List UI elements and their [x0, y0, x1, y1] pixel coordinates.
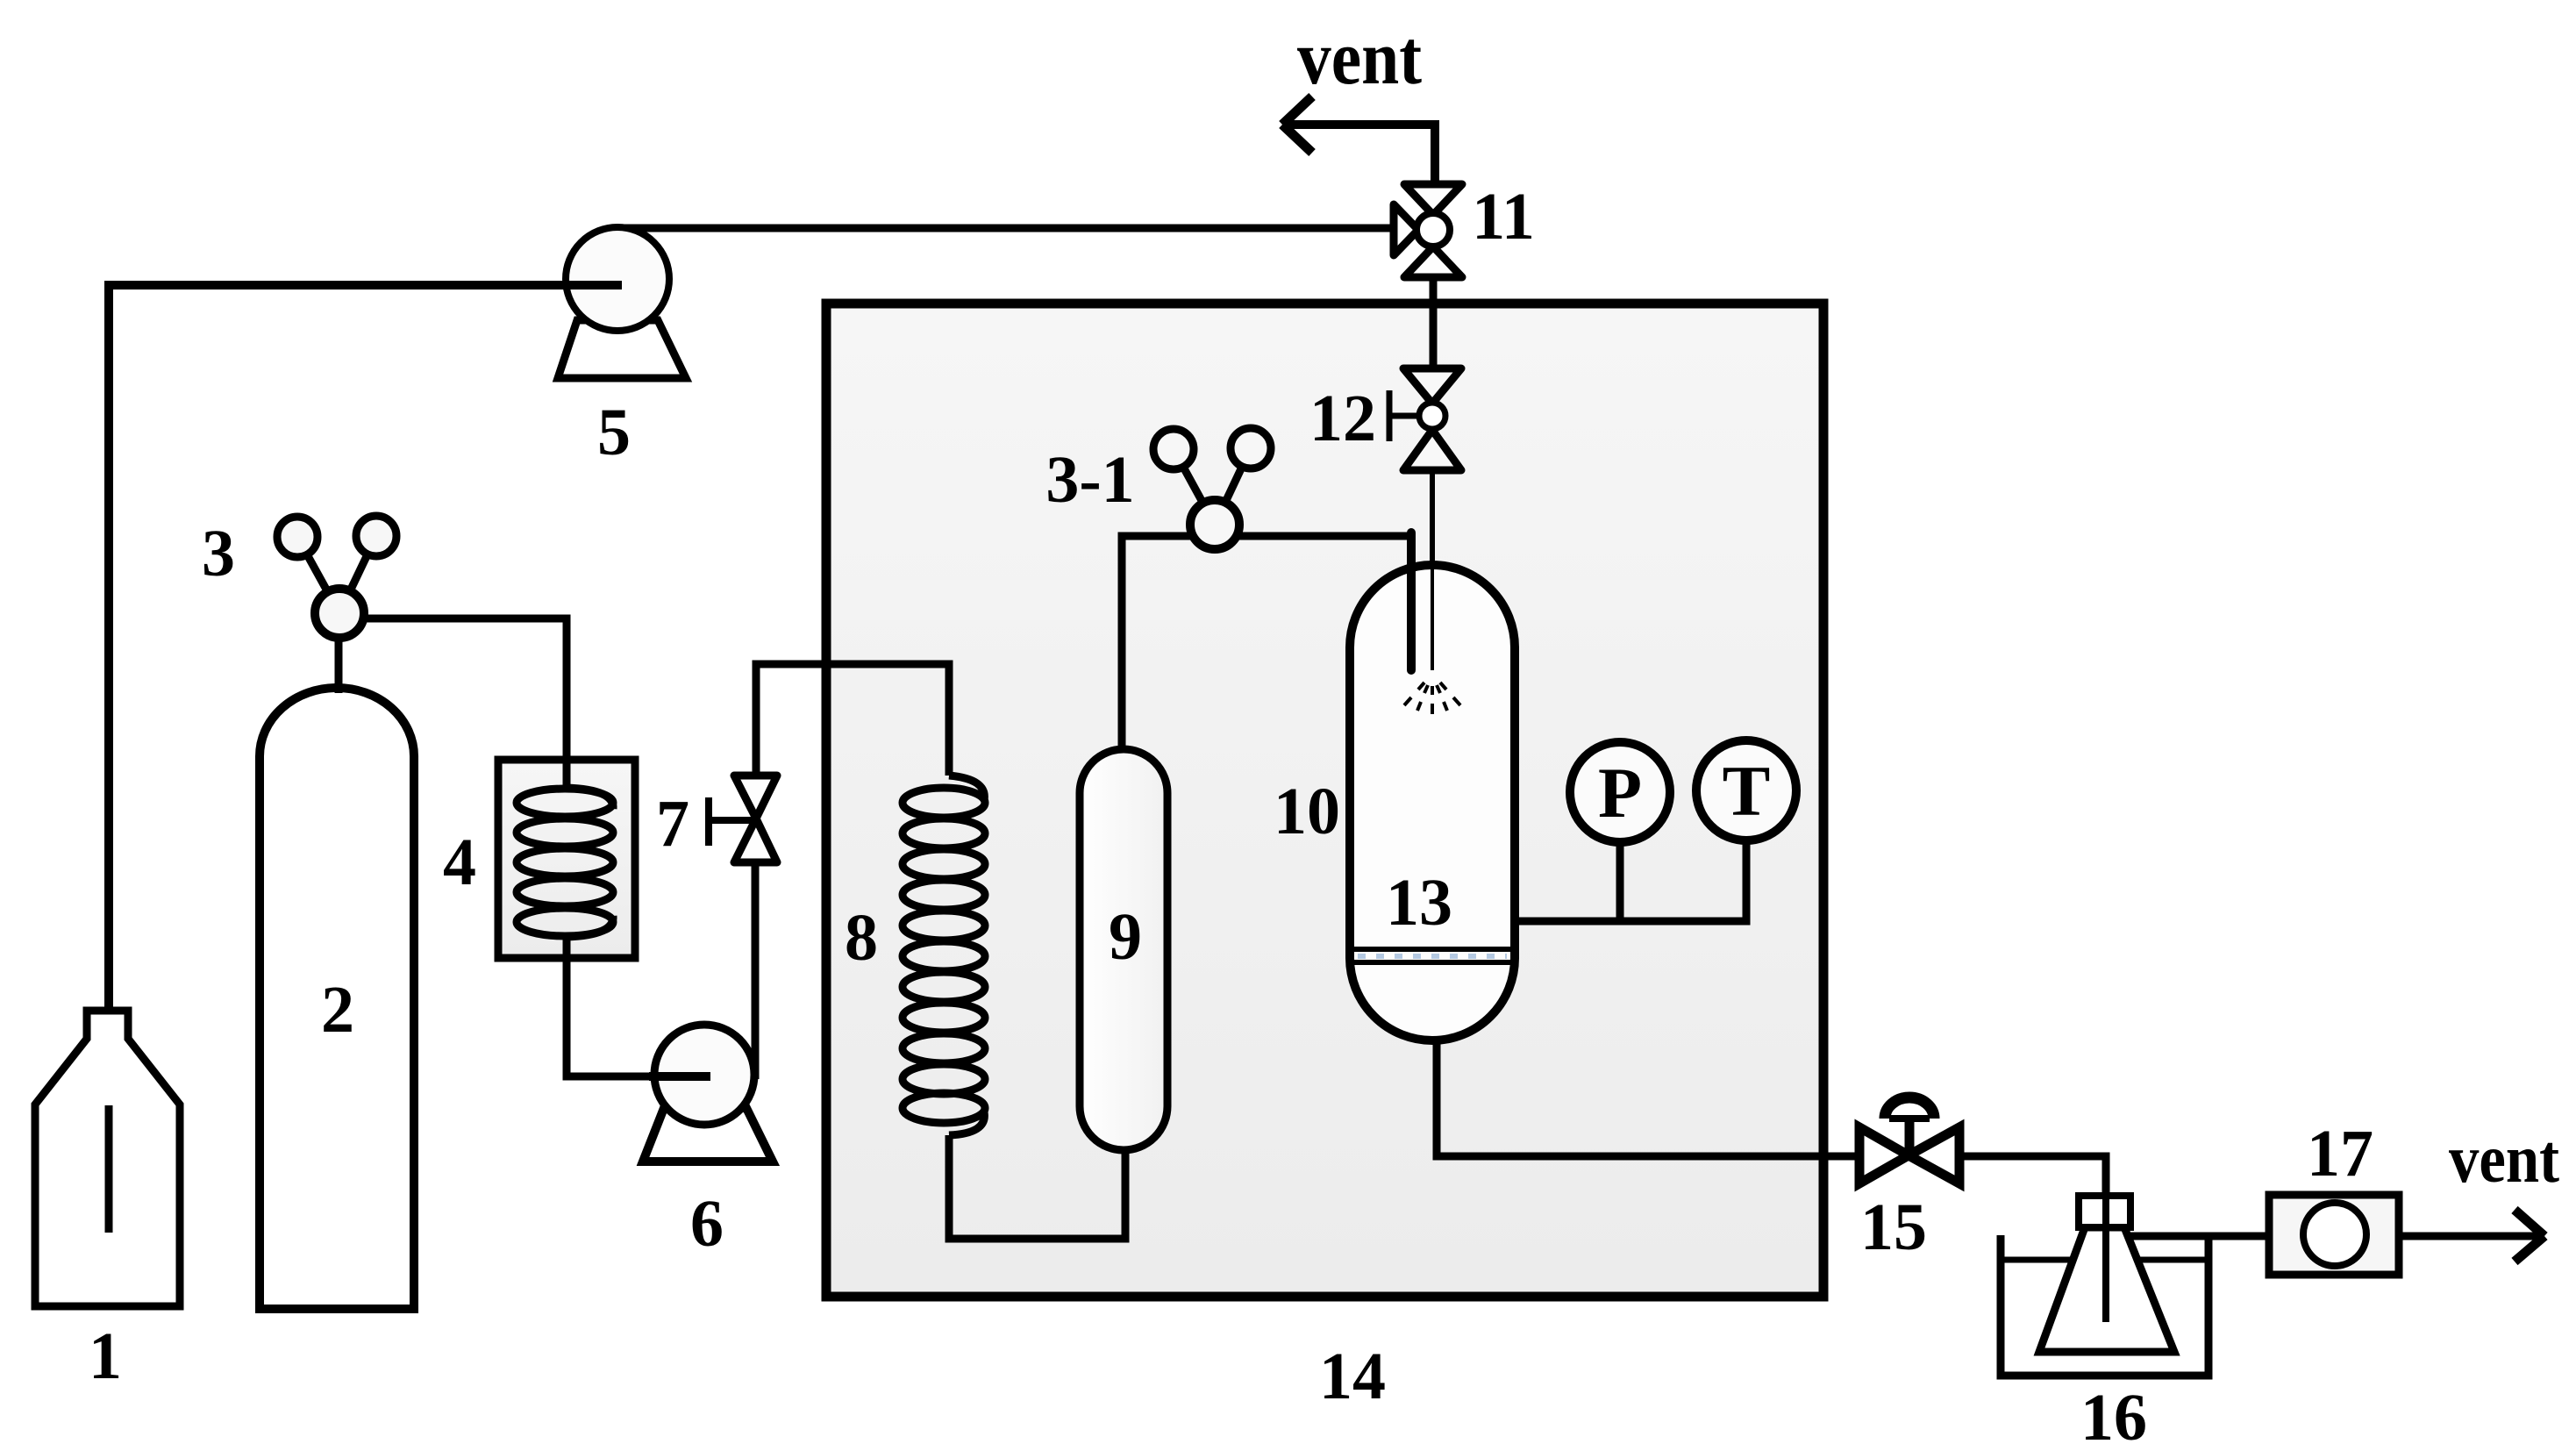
pump 5 inlet stub: [561, 281, 622, 290]
vessel 9 dryer: [1080, 749, 1167, 1150]
valve 12 stem: [1389, 413, 1420, 419]
bottle 1: [35, 1011, 180, 1306]
cylinder 2 neck nipple: [335, 640, 343, 693]
gas cylinder 2: [260, 688, 414, 1309]
svg-text:9: 9: [1109, 900, 1142, 974]
pump 6: [654, 1025, 754, 1125]
reactor spray feed line from valve12: [1431, 569, 1434, 670]
flask 16 collar: [2079, 1196, 2130, 1227]
svg-text:T: T: [1723, 751, 1771, 831]
wire vessel9 top to regulator3-1 to reactor feed pipe: [1122, 536, 1411, 749]
wire pump6 riser to valve7: [752, 861, 760, 1079]
flask 16 cone: [2039, 1227, 2174, 1352]
spray nozzle dashes: [1404, 683, 1460, 714]
wire bottle1 dip tube to pump5 inlet: [109, 285, 622, 1233]
vessel 10 reactor: [1350, 565, 1515, 1040]
svg-text:11: 11: [1472, 180, 1535, 254]
svg-text:14: 14: [1319, 1340, 1386, 1413]
svg-text:2: 2: [321, 973, 354, 1047]
regulator 3 right gauge: [356, 516, 396, 556]
wire cooler4 outlet to pump6: [567, 958, 710, 1076]
vent arrow top: [1284, 125, 1435, 186]
svg-text:6: 6: [690, 1187, 724, 1261]
valve 15: [1859, 1127, 1959, 1183]
dip tube inside bottle: [105, 1105, 113, 1233]
reactor feed pipe from 3-1: [1407, 533, 1416, 670]
wire flask to flow meter 17: [2129, 1233, 2271, 1240]
regulator 3 arms: [297, 537, 339, 613]
vent arrow right: [2399, 1233, 2542, 1240]
svg-text:P: P: [1598, 753, 1642, 833]
wire coil8 outlet to vessel9 bottom: [949, 1135, 1125, 1239]
svg-text:17: 17: [2307, 1117, 2373, 1190]
regulator 3 left gauge: [277, 517, 318, 557]
svg-text:13: 13: [1386, 866, 1452, 940]
regulator 3-1 arms: [1174, 449, 1215, 525]
wire regulator3 to cooler4: [362, 618, 567, 760]
wire gauges header: [1515, 839, 1746, 921]
wire valve12 to reactor dome: [1430, 468, 1435, 572]
flask dip tube: [2102, 1196, 2109, 1322]
wire valve11 to valve12: [1430, 275, 1438, 370]
svg-text:vent: vent: [1297, 16, 1422, 101]
svg-text:vent: vent: [2449, 1120, 2559, 1197]
regulator 3-1 left gauge: [1153, 429, 1194, 469]
valve 11 three-way: [1394, 184, 1462, 277]
valve 7: [734, 776, 777, 862]
svg-text:12: 12: [1309, 382, 1376, 455]
pump 5 base: [558, 320, 686, 378]
coil 8: [903, 776, 985, 1135]
oven box 14: [826, 304, 1823, 1297]
water bath 16: [2001, 1235, 2209, 1376]
svg-text:10: 10: [1274, 775, 1340, 848]
coil in cooler 4: [517, 760, 613, 958]
sieve plate 13 lines: [1352, 947, 1512, 952]
svg-text:5: 5: [597, 396, 631, 469]
svg-text:7: 7: [656, 787, 689, 861]
svg-text:3: 3: [202, 517, 235, 590]
valve 12: [1403, 368, 1461, 470]
svg-text:4: 4: [443, 826, 476, 899]
valve 15 handle: [1905, 1116, 1915, 1155]
regulator 3-1 body: [1190, 500, 1239, 549]
wire reactor outlet to valve15: [1437, 1040, 1860, 1156]
gauge P: [1570, 742, 1670, 842]
svg-text:3-1: 3-1: [1045, 443, 1134, 517]
valve 7 stem: [709, 817, 756, 824]
wire valve15 to flask: [1960, 1156, 2106, 1197]
svg-text:16: 16: [2080, 1381, 2147, 1444]
pump 6 inlet stub: [649, 1072, 710, 1081]
pump 5: [566, 227, 669, 331]
wire valve7 to coil8 elbow: [756, 664, 949, 777]
cooler box 4: [498, 760, 635, 958]
regulator 3 body: [315, 589, 364, 638]
gauge T: [1696, 740, 1796, 840]
pump 6 base: [643, 1108, 773, 1162]
flow meter 17: [2269, 1195, 2399, 1275]
svg-text:1: 1: [89, 1319, 122, 1393]
wire pump5 outlet to valve11: [615, 225, 1395, 232]
regulator 3-1 right gauge: [1231, 428, 1271, 468]
bath water level: [2001, 1257, 2209, 1263]
svg-text:15: 15: [1860, 1190, 1927, 1264]
svg-text:8: 8: [845, 901, 878, 975]
